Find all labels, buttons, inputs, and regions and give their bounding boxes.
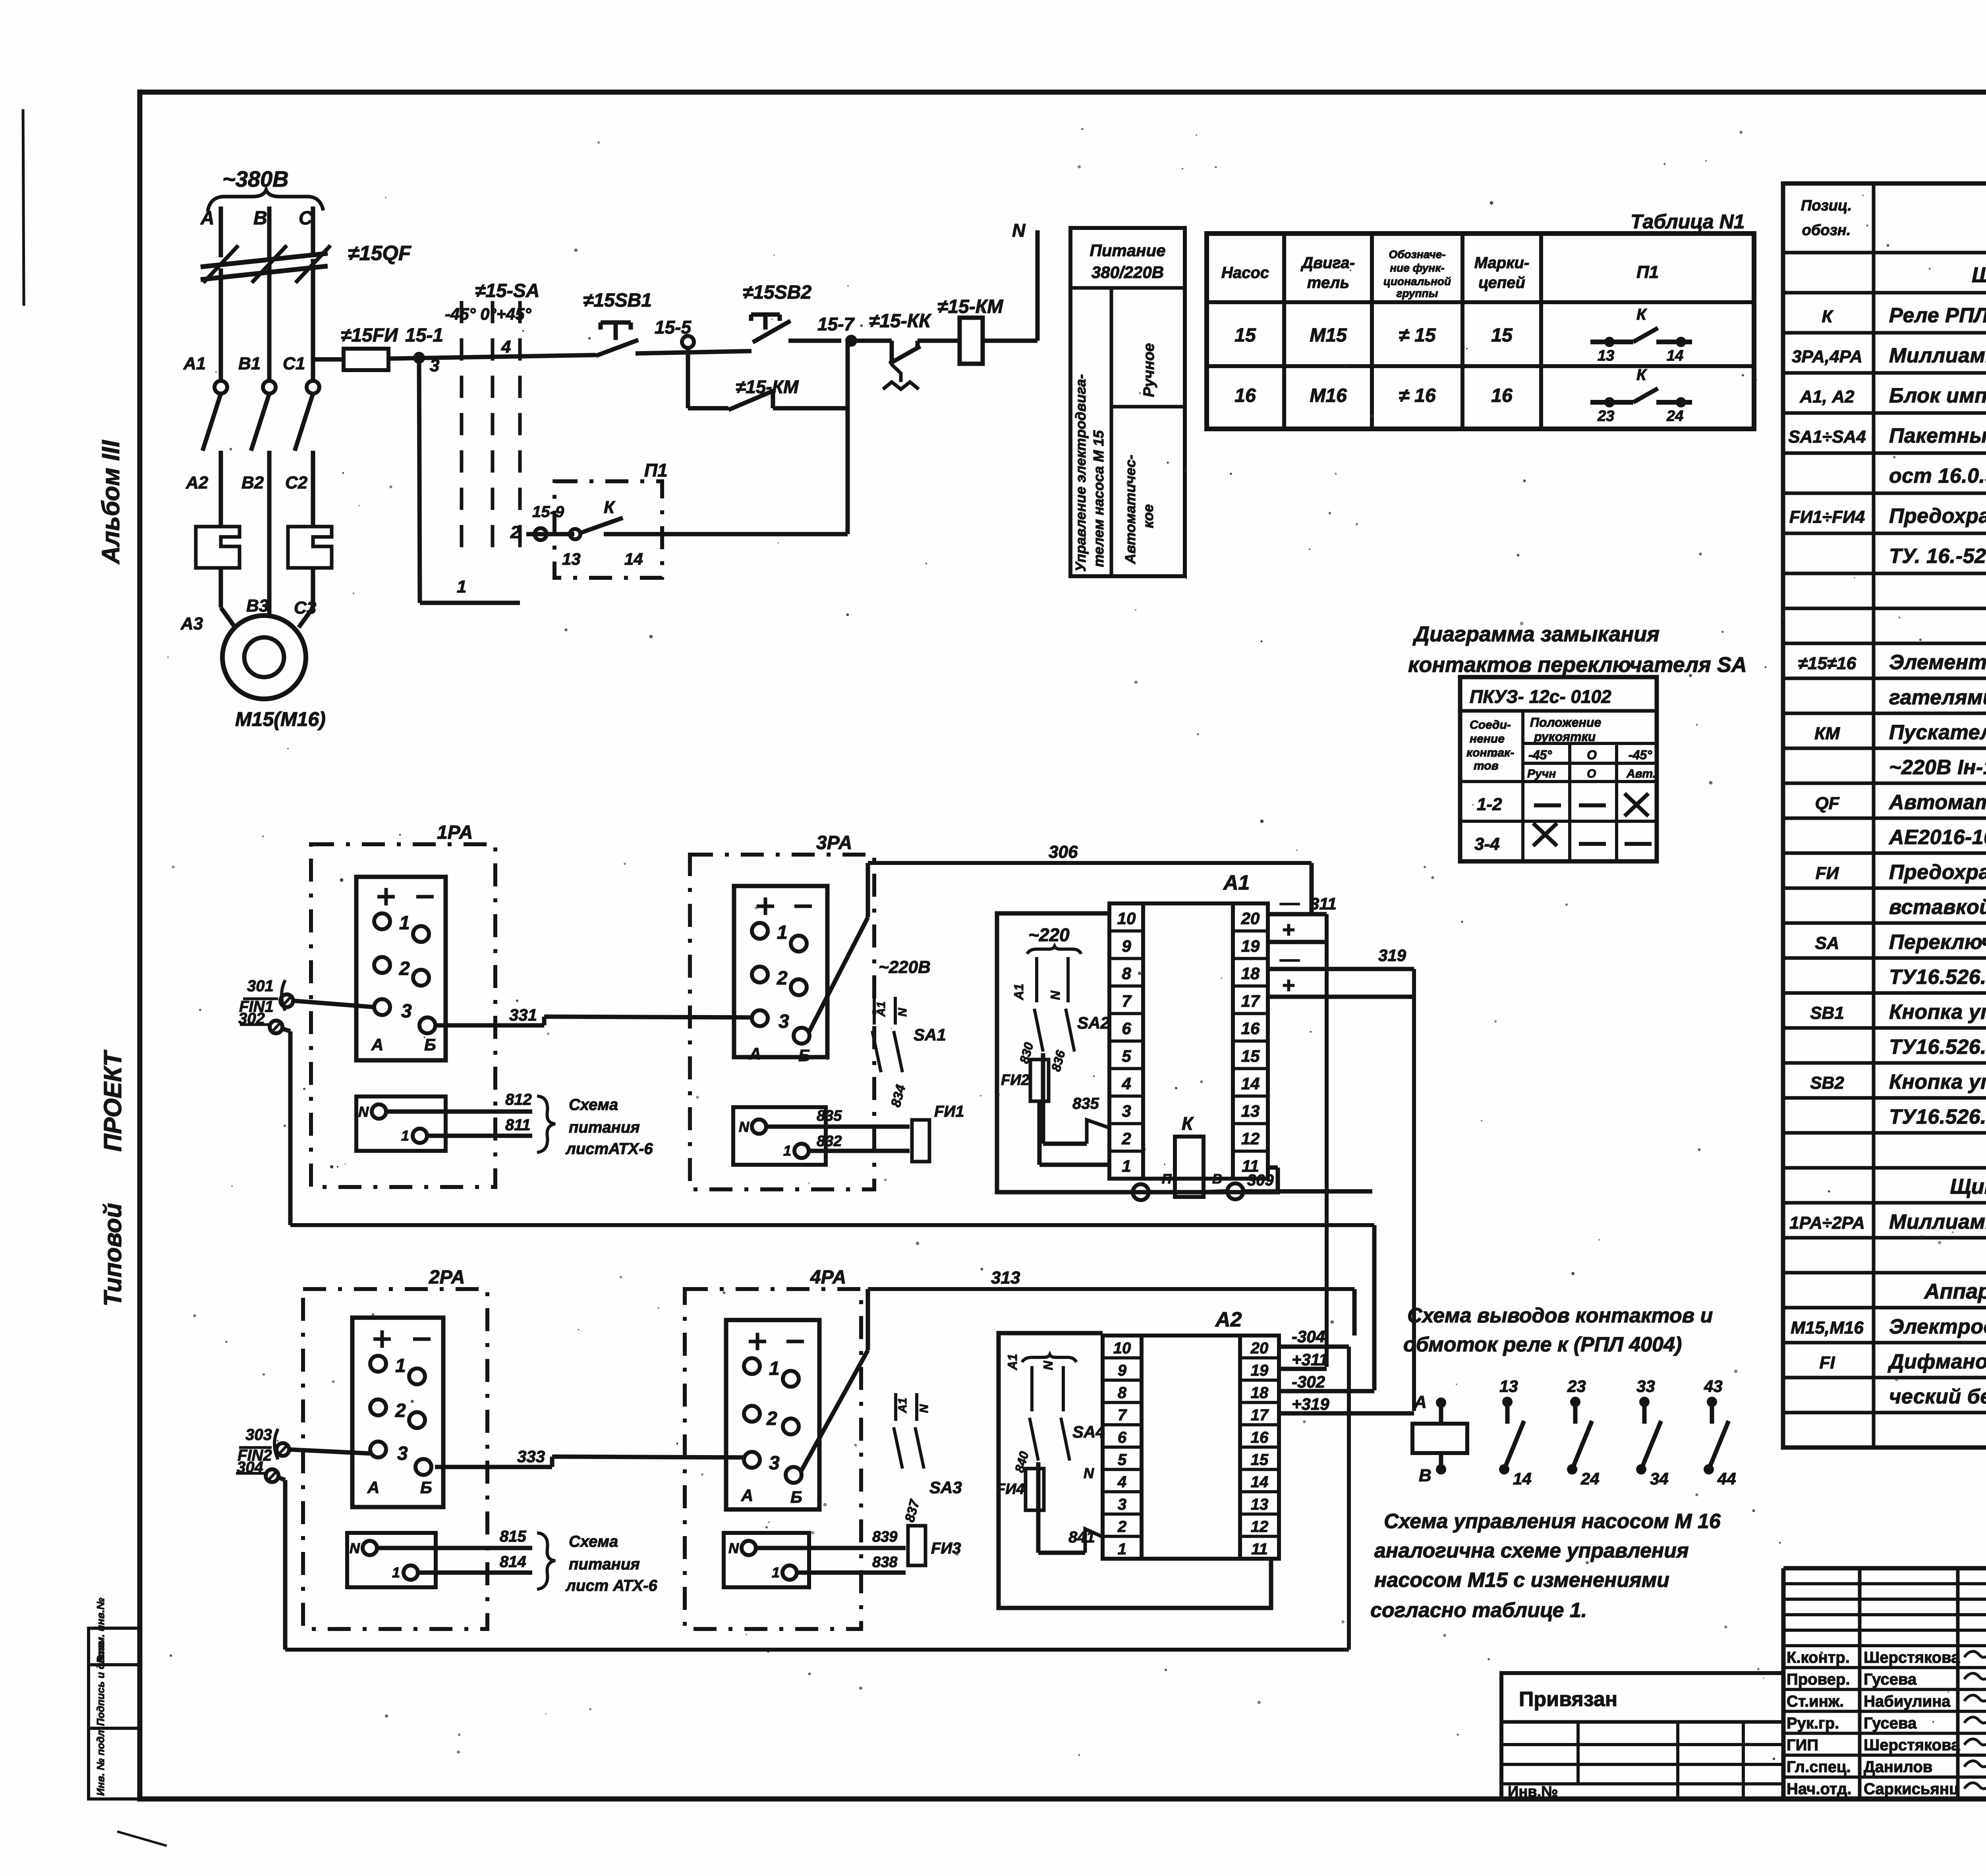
svg-text:N: N xyxy=(358,1104,369,1120)
svg-text:33: 33 xyxy=(1636,1377,1655,1395)
svg-text:ние функ-: ние функ- xyxy=(1390,262,1444,274)
svg-text:К: К xyxy=(1822,307,1833,326)
svg-text:Провер.: Провер. xyxy=(1787,1671,1850,1688)
contact K inside П1 xyxy=(526,532,574,537)
svg-text:КМ: КМ xyxy=(1814,724,1840,743)
svg-text:Блок импульсатора Р33 ТУ25.02.: Блок импульсатора Р33 ТУ25.02.1889-75 xyxy=(1889,384,1986,407)
svg-text:К: К xyxy=(1636,366,1647,384)
svg-text:SА4: SА4 xyxy=(1072,1422,1105,1441)
instrument 1РА dashed box xyxy=(311,844,495,1187)
svg-text:1: 1 xyxy=(395,1355,406,1376)
svg-text:3: 3 xyxy=(430,356,439,375)
svg-text:1: 1 xyxy=(772,1564,780,1581)
parts row 24: ТУ16.526. 407-76. xyxy=(1783,1131,1986,1135)
wire 835 into pin 2 xyxy=(1041,1053,1045,1144)
svg-text:Управление электродвига-: Управление электродвига- xyxy=(1072,374,1089,572)
A1 right pin strip xyxy=(1233,903,1268,1179)
wire 333 xyxy=(435,1465,552,1469)
svg-text:Таблица N1: Таблица N1 xyxy=(1631,210,1745,233)
thermal element phase A xyxy=(196,527,240,568)
svg-text:обмоток реле к (РПЛ 4004): обмоток реле к (РПЛ 4004) xyxy=(1403,1333,1682,1356)
svg-text:К.контр.: К.контр. xyxy=(1787,1649,1850,1666)
parts row 18: вставкой ПВД-1 xyxy=(1783,921,1986,925)
svg-text:ПКУЗ- 12с- 0102: ПКУЗ- 12с- 0102 xyxy=(1470,686,1611,707)
svg-text:12: 12 xyxy=(1251,1518,1269,1536)
svg-text:24: 24 xyxy=(1666,408,1683,425)
svg-text:812: 812 xyxy=(505,1091,532,1108)
circuit breaker QF ~15QF xyxy=(201,253,328,267)
table ПКУЗ-12с-0102 xyxy=(1460,677,1657,861)
svg-text:~220В Iн-10А с приставкой ПКЛ2: ~220В Iн-10А с приставкой ПКЛ2004 xyxy=(1889,756,1986,779)
3РА meter terminals xyxy=(734,886,827,1057)
svg-text:14: 14 xyxy=(1241,1074,1260,1093)
svg-text:18: 18 xyxy=(1241,964,1260,983)
svg-text:А1: А1 xyxy=(1005,1354,1020,1370)
svg-text:10: 10 xyxy=(1117,909,1136,928)
svg-text:1: 1 xyxy=(1122,1157,1131,1175)
table: Питание 380/220В / Управление xyxy=(1070,228,1185,576)
parts row 22: ТУ16.526.407-76 xyxy=(1783,1061,1986,1065)
svg-text:Ст.инж.: Ст.инж. xyxy=(1787,1693,1844,1710)
svg-text:ПРОЕКТ: ПРОЕКТ xyxy=(99,1050,127,1152)
svg-text:15: 15 xyxy=(1491,325,1513,346)
П1 dashed box xyxy=(554,481,662,578)
svg-text:ческий бесшкальный ДМ3Р-М: ческий бесшкальный ДМ3Р-М xyxy=(1889,1385,1986,1408)
node 15-9 on П1 line xyxy=(535,528,547,540)
svg-text:А2: А2 xyxy=(1215,1308,1242,1331)
wire 302 down to long loop xyxy=(282,1029,290,1031)
svg-text:2: 2 xyxy=(766,1408,777,1429)
parts row 6: ост 16.0.526.001-77 xyxy=(1783,492,1986,495)
svg-text:+: + xyxy=(1282,973,1295,998)
svg-text:16: 16 xyxy=(1251,1429,1269,1446)
svg-text:3-4: 3-4 xyxy=(1474,834,1500,854)
svg-text:43: 43 xyxy=(1704,1377,1723,1395)
svg-text:согласно таблице 1.: согласно таблице 1. xyxy=(1370,1599,1587,1622)
A2 pin17 +319 xyxy=(1279,1411,1414,1416)
svg-text:Данилов: Данилов xyxy=(1864,1758,1932,1776)
svg-text:331: 331 xyxy=(509,1006,537,1024)
svg-text:Миллиамперметр самопищущий КСУ: Миллиамперметр самопищущий КСУ2-003 xyxy=(1889,1210,1986,1233)
svg-text:1: 1 xyxy=(1118,1540,1126,1558)
breaker pole contact B xyxy=(263,381,276,394)
svg-text:-45° 0°+45°: -45° 0°+45° xyxy=(445,305,532,323)
svg-text:839: 839 xyxy=(872,1529,897,1545)
instrument 3РА dashed box xyxy=(690,855,874,1189)
svg-text:N: N xyxy=(728,1540,739,1556)
svg-text:К: К xyxy=(1182,1113,1194,1134)
svg-text:N: N xyxy=(1048,990,1063,1000)
svg-text:Гусева: Гусева xyxy=(1864,1714,1917,1732)
svg-text:контактов переключателя SА: контактов переключателя SА xyxy=(1408,653,1747,677)
svg-text:1: 1 xyxy=(392,1564,400,1581)
fuse FU1 xyxy=(912,1120,929,1162)
parts row 20: ТУ16.526.047-74 xyxy=(1783,991,1986,995)
svg-text:насосом М15 с изменениями: насосом М15 с изменениями xyxy=(1374,1569,1669,1592)
svg-text:Шкаф 15,16 ш: Шкаф 15,16 ш xyxy=(1972,263,1986,287)
svg-text:Переключатель ПКУЗ-12с- 0102: Переключатель ПКУЗ-12с- 0102 xyxy=(1889,931,1986,954)
svg-text:А: А xyxy=(741,1486,753,1505)
A2 pin18 -302 xyxy=(1279,1389,1374,1393)
svg-text:Диаграмма замыкания: Диаграмма замыкания xyxy=(1412,622,1660,646)
svg-text:-304: -304 xyxy=(1292,1327,1325,1346)
svg-text:333: 333 xyxy=(517,1447,545,1466)
svg-text:Шерстякова: Шерстякова xyxy=(1864,1649,1960,1666)
svg-text:Ручное: Ручное xyxy=(1141,343,1157,397)
svg-text:17: 17 xyxy=(1251,1407,1269,1424)
svg-text:15-9: 15-9 xyxy=(532,503,564,521)
svg-text:SА3: SА3 xyxy=(929,1478,962,1497)
box Привязан xyxy=(1501,1673,1783,1799)
svg-text:14: 14 xyxy=(1513,1469,1532,1488)
svg-text:FИ2: FИ2 xyxy=(1001,1072,1030,1089)
parts row 1: Шкаф 15,16 ш xyxy=(1783,291,1986,295)
svg-text:20: 20 xyxy=(1250,1339,1269,1357)
svg-text:QF: QF xyxy=(1815,793,1839,813)
svg-text:13: 13 xyxy=(1499,1377,1518,1395)
svg-text:≠15SВ2: ≠15SВ2 xyxy=(743,282,811,303)
svg-text:В1: В1 xyxy=(238,354,261,373)
node 15-7 junction xyxy=(845,335,857,347)
svg-text:≠15SВ1: ≠15SВ1 xyxy=(583,290,652,311)
svg-text:А3: А3 xyxy=(180,614,203,633)
parts row 26: Щит диспетчера xyxy=(1783,1201,1986,1204)
svg-text:≠15-КК: ≠15-КК xyxy=(869,311,932,332)
svg-text:М15(М16): М15(М16) xyxy=(235,708,326,730)
parts row 19: Переключатель ПКУЗ-12с- xyxy=(1783,956,1986,960)
parts row 27: Миллиамперметр самопищущ xyxy=(1783,1236,1986,1239)
phase line A1 segment xyxy=(219,268,223,380)
svg-text:3: 3 xyxy=(779,1011,789,1032)
svg-text:FИ: FИ xyxy=(1816,864,1839,883)
svg-text:-45°: -45° xyxy=(1629,748,1652,762)
svg-text:А1, А2: А1, А2 xyxy=(1800,387,1855,407)
svg-text:—: — xyxy=(1280,892,1300,914)
A2 pin19 +311 xyxy=(1279,1367,1327,1371)
svg-text:Марки-: Марки- xyxy=(1474,254,1530,272)
svg-text:Обозначе-: Обозначе- xyxy=(1389,248,1445,261)
svg-text:N: N xyxy=(896,1007,909,1017)
svg-text:-45°: -45° xyxy=(1528,748,1552,762)
svg-text:3: 3 xyxy=(769,1453,780,1474)
svg-text:13: 13 xyxy=(562,550,581,568)
long wire 302 loop xyxy=(290,1223,1374,1227)
title row Ст.инж. Набиулина xyxy=(1783,1710,1986,1713)
svg-text:3: 3 xyxy=(397,1443,408,1464)
svg-text:20: 20 xyxy=(1241,909,1260,928)
svg-text:С: С xyxy=(299,208,313,229)
svg-text:3: 3 xyxy=(1118,1496,1126,1513)
svg-text:М15: М15 xyxy=(1310,325,1347,346)
svg-text:В: В xyxy=(1212,1172,1222,1187)
parts row 25: blank xyxy=(1783,1166,1986,1170)
svg-text:9: 9 xyxy=(1118,1362,1127,1379)
svg-text:А: А xyxy=(200,208,214,229)
svg-text:15: 15 xyxy=(1234,325,1256,346)
svg-text:811: 811 xyxy=(505,1116,531,1134)
svg-text:тель: тель xyxy=(1307,274,1349,291)
parts row 3: Миллиамперметр самопищущ xyxy=(1783,371,1986,375)
brace under ~380V xyxy=(208,190,323,212)
svg-text:19: 19 xyxy=(1251,1362,1269,1379)
svg-text:Электродвигатель АО2-21-4 , 1.: Электродвигатель АО2-21-4 , 1.1кВт xyxy=(1889,1315,1986,1338)
svg-text:1РА÷2РА: 1РА÷2РА xyxy=(1789,1213,1865,1233)
svg-text:С3: С3 xyxy=(294,598,316,618)
parts list table frame xyxy=(1783,183,1986,1448)
thermal element phase C xyxy=(288,527,332,568)
svg-text:5: 5 xyxy=(1118,1451,1127,1469)
parts row 32: ческий бесшкальный ДМ3Р- xyxy=(1783,1411,1986,1415)
svg-text:обозн.: обозн. xyxy=(1802,222,1851,239)
parts row 17: Предохранитель ПРС-6У3-П xyxy=(1783,886,1986,890)
phase line C1 segment xyxy=(311,259,315,380)
title row Рук.гр. Гусева xyxy=(1783,1732,1986,1735)
wire 304 down to long loop xyxy=(278,1477,285,1480)
svg-text:+: + xyxy=(1282,917,1295,942)
svg-text:Пускатель магнитный ПМЛ-№0004: Пускатель магнитный ПМЛ-№0004 xyxy=(1889,721,1986,744)
svg-text:цепей: цепей xyxy=(1478,274,1525,291)
svg-text:FИ1÷FИ4: FИ1÷FИ4 xyxy=(1789,508,1865,527)
svg-text:N: N xyxy=(918,1404,931,1413)
svg-text:4РА: 4РА xyxy=(810,1267,846,1288)
svg-text:313: 313 xyxy=(991,1268,1020,1287)
control line segment xyxy=(388,355,596,359)
svg-text:Набиулина: Набиулина xyxy=(1864,1693,1951,1710)
svg-text:FИ1: FИ1 xyxy=(934,1103,964,1120)
parts row 33: blank xyxy=(1783,1446,1986,1449)
svg-text:≠15FИ: ≠15FИ xyxy=(341,325,398,346)
svg-text:7: 7 xyxy=(1118,1407,1127,1424)
terminal circles input xyxy=(280,994,293,1007)
parts row 16: АЕ2016-10У3 к- 6А ТУ16.5 xyxy=(1783,851,1986,855)
title row Провер. Гусева xyxy=(1783,1688,1986,1691)
parts row 9: blank xyxy=(1783,607,1986,610)
svg-text:Схема выводов контактов и: Схема выводов контактов и xyxy=(1407,1304,1713,1327)
svg-text:2: 2 xyxy=(777,968,788,989)
wire 302 rise to A2 pin 18 xyxy=(1372,1225,1377,1390)
svg-text:14: 14 xyxy=(1251,1473,1269,1491)
A1 left pin strip xyxy=(1109,903,1143,1179)
switch SA3 xyxy=(894,1393,897,1421)
wire 331 xyxy=(437,1023,544,1028)
switch SA2 xyxy=(1034,1009,1043,1052)
parts row 12: гателями М15, М16. xyxy=(1783,712,1986,715)
svg-text:Питание: Питание xyxy=(1090,241,1166,260)
motor leads xyxy=(219,568,223,608)
wire from П1 to node 15-7 xyxy=(846,341,850,534)
svg-text:835: 835 xyxy=(1072,1095,1099,1112)
A1 pin18 minus wire 319 xyxy=(1268,967,1414,971)
A2 right pin strip xyxy=(1240,1336,1279,1559)
parts row 31: Дифманометр мембранный э xyxy=(1783,1376,1986,1379)
wires 815 814 xyxy=(377,1546,532,1550)
svg-text:А: А xyxy=(749,1044,761,1063)
svg-text:Предохранитель ПРС-6У3-Пс плав: Предохранитель ПРС-6У3-Пс плавкой xyxy=(1889,861,1986,884)
svg-text:Реле РПЛ4004 ТУ16-523.554-79,: Реле РПЛ4004 ТУ16-523.554-79, 220В xyxy=(1889,304,1986,327)
svg-text:12: 12 xyxy=(1241,1129,1260,1148)
svg-text:Б: Б xyxy=(424,1035,436,1054)
wire into pin 1 xyxy=(1037,1101,1042,1165)
svg-text:1: 1 xyxy=(769,1358,780,1379)
svg-text:1-2: 1-2 xyxy=(1477,795,1502,814)
svg-text:6: 6 xyxy=(1118,1429,1127,1446)
svg-text:13: 13 xyxy=(1251,1496,1269,1513)
svg-text:Схема: Схема xyxy=(569,1096,618,1114)
svg-text:15: 15 xyxy=(1251,1451,1269,1469)
svg-text:303: 303 xyxy=(245,1426,272,1444)
svg-text:+311: +311 xyxy=(1292,1350,1328,1369)
svg-text:-302: -302 xyxy=(1292,1372,1325,1391)
svg-text:13: 13 xyxy=(1241,1102,1260,1120)
A2 body xyxy=(1142,1336,1240,1559)
svg-text:4: 4 xyxy=(1121,1074,1131,1093)
svg-text:В: В xyxy=(253,208,267,229)
svg-text:≠15-SA: ≠15-SA xyxy=(475,280,539,301)
A2 left pin strip xyxy=(1103,1336,1142,1559)
junction node 15-1 xyxy=(413,352,425,364)
svg-text:Схема: Схема xyxy=(569,1533,618,1550)
svg-text:SА2: SА2 xyxy=(1077,1013,1110,1032)
phase line B1 segment xyxy=(267,264,272,380)
svg-text:ТУ16.526.047-74: ТУ16.526.047-74 xyxy=(1889,966,1986,989)
svg-text:В3: В3 xyxy=(246,596,269,616)
svg-text:Гусева: Гусева xyxy=(1864,1671,1917,1688)
breaker pole contact A xyxy=(214,381,227,394)
3РА power terminals N,1 xyxy=(733,1107,826,1165)
left margin box: Инв. № подл. xyxy=(89,1728,140,1799)
parts row 11: Элементы управления эле xyxy=(1783,677,1986,680)
svg-text:16: 16 xyxy=(1491,385,1513,406)
fuse FU4 xyxy=(1026,1469,1044,1510)
svg-text:4: 4 xyxy=(501,337,511,357)
svg-text:2РА: 2РА xyxy=(429,1267,465,1288)
svg-text:А1: А1 xyxy=(875,1002,888,1017)
contact symbol K 13-14 xyxy=(1590,340,1633,344)
3РА diagonal output to wire 306 xyxy=(809,917,868,1033)
svg-text:2: 2 xyxy=(399,958,410,979)
title block frame xyxy=(1783,1566,1986,1571)
svg-text:Авт.: Авт. xyxy=(1626,767,1656,780)
long wire 304 loop xyxy=(285,1648,1349,1652)
svg-text:N: N xyxy=(1041,1361,1055,1370)
svg-text:Насос: Насос xyxy=(1221,264,1269,282)
svg-text:9: 9 xyxy=(1122,936,1131,955)
svg-text:О: О xyxy=(1587,748,1597,762)
instrument 2РА dashed box xyxy=(303,1289,487,1629)
svg-text:А: А xyxy=(1414,1392,1427,1412)
breaker pole contact C xyxy=(307,381,319,394)
svg-text:34: 34 xyxy=(1650,1469,1669,1488)
parts row 30: Электродвигатель АО2-21- xyxy=(1783,1341,1986,1344)
svg-text:тов: тов xyxy=(1474,759,1499,772)
svg-text:Схема управления насосом М 16: Схема управления насосом М 16 xyxy=(1384,1510,1721,1533)
svg-text:306: 306 xyxy=(1049,842,1078,862)
branch down to SA row 1 xyxy=(419,358,420,603)
motor M15(M16) xyxy=(222,616,306,699)
svg-text:15-1: 15-1 xyxy=(405,325,443,346)
svg-text:SА: SА xyxy=(1815,934,1839,953)
wires 812 811 to power sheet xyxy=(386,1110,532,1114)
svg-text:Инв.№: Инв.№ xyxy=(1508,1783,1558,1800)
svg-text:1: 1 xyxy=(457,577,466,596)
A1 body xyxy=(1143,903,1233,1179)
svg-text:лист АТХ-6: лист АТХ-6 xyxy=(565,1577,658,1594)
svg-text:А2: А2 xyxy=(185,473,209,492)
instrument 4РА dashed box xyxy=(685,1289,861,1629)
svg-text:8: 8 xyxy=(1122,964,1131,983)
svg-text:С2: С2 xyxy=(285,473,308,492)
svg-text:ТУ. 16.-521.037-76: ТУ. 16.-521.037-76 xyxy=(1889,545,1986,568)
svg-text:10: 10 xyxy=(1113,1339,1131,1357)
svg-text:3РА,4РА: 3РА,4РА xyxy=(1792,347,1862,367)
svg-text:SВ2: SВ2 xyxy=(1810,1073,1844,1093)
svg-text:О: О xyxy=(1587,767,1596,780)
svg-text:SВ1: SВ1 xyxy=(1810,1004,1844,1023)
svg-text:ТУ16.526.407-76: ТУ16.526.407-76 xyxy=(1889,1036,1986,1059)
svg-text:8: 8 xyxy=(1118,1384,1127,1401)
svg-text:4: 4 xyxy=(1117,1473,1126,1491)
parts row 13: Пускатель магнитный ПМЛ- xyxy=(1783,747,1986,750)
A1 pin19 plus xyxy=(1268,940,1327,944)
svg-text:18: 18 xyxy=(1251,1384,1269,1401)
svg-text:гателями М15, М16.: гателями М15, М16. xyxy=(1889,686,1986,709)
phase bus A xyxy=(219,207,223,257)
svg-text:≠ 15: ≠ 15 xyxy=(1399,325,1436,346)
svg-text:нение: нение xyxy=(1470,732,1505,745)
svg-text:АЕ2016-10У3 к- 6А ТУ16.522,084: АЕ2016-10У3 к- 6А ТУ16.522,084-75 xyxy=(1888,826,1986,849)
svg-text:Миллиамперметр самопищущий КСУ: Миллиамперметр самопищущий КСУ2-003 xyxy=(1889,344,1986,367)
svg-text:П1: П1 xyxy=(644,460,668,481)
svg-text:+319: +319 xyxy=(1292,1395,1329,1413)
svg-text:7: 7 xyxy=(1122,992,1132,1010)
svg-text:А1: А1 xyxy=(896,1398,909,1413)
4РА diagonal output to wire 313 xyxy=(801,1350,868,1472)
svg-text:Позиц.: Позиц. xyxy=(1801,197,1852,214)
svg-text:контак-: контак- xyxy=(1466,746,1514,759)
svg-text:Аппаратура по месту: Аппаратура по месту xyxy=(1923,1280,1986,1303)
svg-text:814: 814 xyxy=(500,1553,526,1571)
svg-text:44: 44 xyxy=(1717,1469,1736,1488)
svg-text:23: 23 xyxy=(1567,1377,1586,1395)
svg-text:832: 832 xyxy=(817,1133,842,1150)
fuse FU2 xyxy=(1030,1060,1049,1101)
svg-text:3: 3 xyxy=(401,1001,412,1022)
svg-text:питания: питания xyxy=(569,1119,640,1136)
svg-text:ТУ16.526. 407-76.: ТУ16.526. 407-76. xyxy=(1889,1106,1986,1129)
svg-text:3РА: 3РА xyxy=(816,832,852,853)
svg-text:ост 16.0.526.001-77: ост 16.0.526.001-77 xyxy=(1889,465,1986,488)
svg-text:15-7: 15-7 xyxy=(817,314,855,334)
svg-text:Рук.гр.: Рук.гр. xyxy=(1787,1714,1839,1732)
svg-text:309: 309 xyxy=(1247,1172,1274,1189)
svg-text:N: N xyxy=(1084,1465,1094,1481)
svg-text:FI: FI xyxy=(1819,1353,1835,1372)
svg-text:6: 6 xyxy=(1122,1019,1131,1038)
parts row 10: blank xyxy=(1783,642,1986,645)
svg-text:В: В xyxy=(1419,1466,1432,1485)
parts row 2: Реле РПЛ4004 ТУ16-523.55 xyxy=(1783,331,1986,335)
wire 311 down to A2 xyxy=(1325,914,1329,1367)
svg-text:Альбом III: Альбом III xyxy=(97,440,125,565)
svg-text:5: 5 xyxy=(1122,1047,1131,1065)
parts row 7: Предохранитель ППТ-10 пл xyxy=(1783,532,1986,535)
svg-text:М16: М16 xyxy=(1310,385,1347,406)
svg-text:SА1÷SА4: SА1÷SА4 xyxy=(1788,427,1866,447)
svg-text:В2: В2 xyxy=(241,473,264,492)
svg-text:Б: Б xyxy=(798,1046,810,1065)
svg-text:телем насоса М 15: телем насоса М 15 xyxy=(1090,430,1107,567)
A1 pin20 minus wire 311 xyxy=(1268,912,1327,917)
